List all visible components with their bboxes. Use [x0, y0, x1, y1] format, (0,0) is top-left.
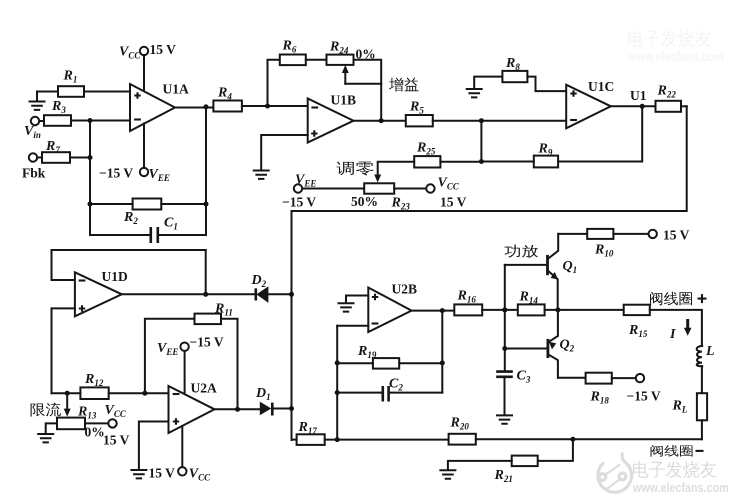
resistor R5 [406, 100, 433, 127]
power terminal VEE at R23 (-15 V) [282, 173, 316, 210]
potentiometer R23 [351, 183, 410, 211]
wire R21 branch [538, 439, 573, 461]
wire Q1 collector to R10 [558, 233, 587, 235]
current arrow I [669, 319, 692, 342]
wire U1C output [611, 105, 656, 107]
wire R12 line [52, 391, 169, 396]
power terminal 15 V at R10 [649, 228, 690, 243]
svg-text:U1A: U1A [163, 82, 189, 97]
wire U2B output [412, 308, 455, 313]
wire Vcc to U2A [181, 426, 183, 467]
svg-text:15 V: 15 V [663, 228, 690, 243]
wire R11 feedback loop [145, 319, 238, 410]
capacitor C2 [337, 377, 442, 402]
transistor Q1 [548, 234, 578, 310]
svg-text:U2B: U2B [392, 282, 418, 297]
wire R4 to U1B - input [242, 104, 308, 109]
transistor Q2 [548, 310, 575, 378]
label power-amp (Chinese) [504, 245, 538, 259]
wire C3 to ground [504, 377, 506, 415]
capacitor C3 [496, 369, 531, 385]
wire VEE to R23 [302, 188, 364, 190]
wire U1A output down to R2/C1 [205, 107, 207, 204]
ground at R8 [467, 89, 482, 97]
power terminal VEE of U1A (-15 V) [99, 166, 170, 183]
ground at R21 [440, 470, 455, 478]
resistor R17 [297, 420, 325, 445]
wire R13 to Vcc terminal [85, 422, 108, 424]
label valve coil - (Chinese) [651, 445, 704, 457]
svg-text:15 V: 15 V [103, 433, 130, 448]
power terminal VEE at U2A (-15 V) [157, 335, 224, 357]
wire Q2 collector to R18 [558, 377, 586, 379]
resistor R22 [656, 84, 682, 112]
wire R9 line to U1 node [481, 106, 642, 161]
power terminal Vcc at U2A (15 V) [149, 466, 212, 483]
diode D2 [251, 273, 269, 303]
svg-text:15 V: 15 V [150, 42, 177, 57]
svg-text:50%: 50% [351, 194, 378, 209]
wire loop down to U1D output [203, 250, 208, 297]
node junction at R3/R7 (dot) [88, 118, 93, 123]
wire Vcc to U1A [143, 55, 145, 91]
svg-text:−15 V: −15 V [99, 166, 133, 181]
wiper arrow of R13 [64, 393, 71, 416]
ground at U2B + input [339, 303, 354, 311]
resistor R19 [357, 344, 399, 369]
svg-text:U1: U1 [630, 88, 647, 103]
wire base node vertical [502, 265, 507, 371]
wire R5 to U1C - input [433, 118, 567, 123]
resistor R12 [80, 372, 108, 399]
wire U1B output [354, 118, 406, 123]
wire R23 to Vcc [394, 188, 426, 190]
svg-text:U1B: U1B [331, 93, 357, 108]
wire U2B - loop down to rail [335, 326, 340, 440]
svg-text:L: L [705, 344, 715, 359]
resistor R15 [624, 305, 650, 339]
label gain (Chinese) [389, 77, 418, 91]
resistor R2 [123, 199, 161, 226]
wire R10 to 15V terminal [613, 233, 648, 235]
wire R24 wiper to right terminal [345, 83, 381, 85]
ground at C3 [497, 415, 512, 423]
wire Fbk to R7 [37, 157, 42, 159]
op-amp U1D [75, 269, 128, 316]
wire R18 to -15V terminal [612, 377, 636, 379]
wire U1D + down to R12 [51, 308, 53, 393]
svg-text:www.elecfans.com: www.elecfans.com [632, 481, 728, 495]
resistor R18 [586, 373, 612, 406]
resistor R21 [494, 456, 538, 484]
wire R21 to ground [448, 461, 512, 470]
wire to Q1 base [505, 264, 548, 266]
wire U2B output down to R19/C2 [441, 311, 443, 393]
svg-text:I: I [669, 327, 676, 342]
watermark logo (elecfans) [598, 453, 632, 493]
wire R6 to R24 [306, 59, 327, 61]
wire U2A + input to ground [139, 422, 169, 470]
op-amp U2A [169, 381, 217, 434]
wire R8 to U1C + input [527, 77, 566, 92]
input terminal Fbk [22, 153, 46, 180]
diode D1 [255, 386, 272, 416]
op-amp U1B [308, 93, 356, 143]
resistor R10 [587, 229, 614, 258]
resistor R7 [42, 139, 70, 163]
wire rail to R17 [292, 439, 297, 441]
wire U1D output to D2 [122, 293, 256, 295]
wire R20 to coil return [476, 437, 702, 442]
wire R1 to U1A + input [84, 91, 130, 93]
ground at R13 [38, 434, 53, 442]
capacitor C1 [90, 204, 206, 243]
label zero-adjust (Chinese) [337, 161, 374, 175]
wire D1 to rail [272, 406, 294, 411]
wiper arrow of R24 [342, 65, 349, 84]
wire Vin to R3 [39, 120, 44, 122]
resistor RL (load) [672, 393, 708, 420]
resistor R1 [58, 69, 84, 97]
resistor R11 [195, 302, 233, 325]
potentiometer R24 [327, 40, 376, 65]
svg-text:15 V: 15 V [440, 195, 467, 210]
svg-text:15 V: 15 V [149, 466, 176, 481]
svg-text:www.elecfans.com: www.elecfans.com [627, 50, 723, 64]
wire U2B - input [337, 325, 368, 327]
resistor R16 [454, 289, 482, 316]
wire R19 line [337, 360, 445, 365]
wire U1C minus node down [479, 121, 484, 164]
wire R25 to node [440, 161, 481, 163]
wire R3 to U1A - input [71, 120, 130, 122]
wire node up to R6 [268, 60, 280, 106]
node U1 (output of U1C) [630, 88, 647, 109]
resistor R3 [44, 99, 71, 126]
ground at U1B + input [254, 171, 269, 179]
wire U1D + input [52, 307, 75, 309]
wire R16 to R14 [482, 307, 518, 312]
wire VEE to U1A [143, 124, 145, 168]
resistor R8 [502, 56, 527, 82]
resistor R9 [534, 142, 558, 168]
wire ground to R1 [37, 92, 58, 102]
watermark text (elecfans) [632, 461, 728, 495]
wire R22 to right rail [681, 105, 687, 107]
input terminal Vin [24, 117, 41, 140]
wire R15 to coil + [650, 310, 702, 346]
wire to Q2 base [505, 348, 548, 350]
resistor R25 [414, 141, 440, 168]
op-amp U1C [566, 79, 614, 128]
wire D2 to rail [268, 292, 294, 297]
power terminal Vcc of U1A (15 V) [119, 42, 176, 60]
op-amp U1A [130, 82, 189, 132]
power terminal -15 V at R18 [627, 374, 661, 404]
svg-text:U1D: U1D [102, 269, 128, 284]
svg-text:−15 V: −15 V [627, 389, 661, 404]
label current-limit (Chinese) [31, 403, 61, 417]
wire U1D feedback loop top [52, 250, 206, 280]
svg-text:U2A: U2A [191, 381, 217, 396]
wire R24 to U1B output [354, 60, 382, 121]
wire U1A output [175, 104, 213, 109]
wire R25 left to wiper of R23 [374, 162, 414, 183]
resistor R6 [280, 39, 306, 66]
wire ground to R8 [474, 77, 502, 89]
inductor L [697, 344, 715, 366]
node dot at R2 right [204, 202, 209, 207]
svg-text:U1C: U1C [588, 79, 614, 94]
wire R7 to node [70, 155, 93, 160]
node dot at R2 left [88, 202, 93, 207]
power terminal Vcc at R13 [105, 403, 127, 428]
ground at R1 [30, 102, 45, 110]
svg-text:−15 V: −15 V [190, 335, 224, 350]
label valve coil + (Chinese) [650, 292, 706, 306]
wire U1B + input to ground [261, 135, 308, 170]
svg-text:−15 V: −15 V [282, 195, 316, 210]
wire L to RL [701, 366, 703, 393]
power terminal Vcc at R23 (15 V) [426, 176, 466, 210]
wire right feedback rail [292, 106, 687, 440]
wire U2A output [215, 407, 260, 412]
resistor R20 [449, 416, 476, 445]
svg-text:Fbk: Fbk [22, 166, 46, 181]
wire R17 to R20 [325, 437, 449, 442]
wire R14 to emitter node and R15 [545, 307, 624, 312]
svg-text:0%: 0% [85, 425, 105, 440]
wire R2 line [90, 203, 206, 205]
wire feedback node vertical [89, 121, 91, 205]
wire U2B + input to ground [346, 296, 368, 303]
op-amp U2B [368, 282, 417, 333]
resistor R4 [213, 86, 242, 112]
wire RL to coil - rail [701, 420, 703, 439]
watermark faint top right [627, 30, 723, 64]
resistor R14 [518, 290, 545, 316]
ground at U2A + input [131, 470, 146, 478]
wire VEE to U2A [184, 351, 186, 394]
potentiometer R13 [57, 405, 130, 448]
wire R13 left to ground [46, 423, 57, 433]
